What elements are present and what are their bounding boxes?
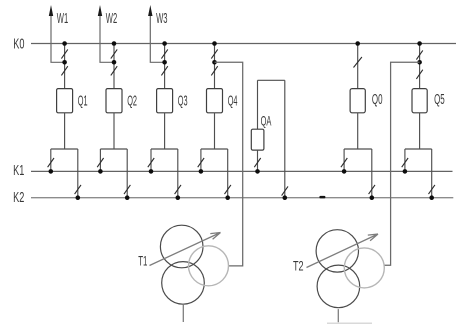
junction dot Q4 at K0 xyxy=(212,41,217,46)
junction dot Q3 tap xyxy=(162,60,167,65)
junction dot Q1 tap xyxy=(62,60,67,65)
disconnector slash Q0 xyxy=(354,57,362,68)
junction dot Q5 at K1 xyxy=(403,169,408,174)
junction dot Q3 at K0 xyxy=(162,41,167,46)
bus K0 xyxy=(31,43,456,45)
junction dot Q1 at K0 xyxy=(62,41,67,46)
transformer T1 primary winding xyxy=(160,225,203,268)
circuit breaker Q3 xyxy=(157,89,173,113)
arrowhead W3 xyxy=(148,5,152,16)
svg-text:Q1: Q1 xyxy=(78,92,88,109)
disconnector slash Q3 K2 leg xyxy=(175,185,181,194)
split bar Q5 xyxy=(405,148,432,150)
junction dot Q2 at K1 xyxy=(98,169,103,174)
wire Q0 right leg to K2 xyxy=(371,149,373,198)
disconnector slash Q3 upper xyxy=(161,49,167,58)
junction dot Q5 at K0 xyxy=(417,41,422,46)
wire Q0 bus drop xyxy=(357,44,359,89)
junction dot Q5 tap xyxy=(417,60,422,65)
disconnector slash Q2 upper xyxy=(111,49,117,58)
junction dot Q0 at K0 xyxy=(355,41,360,46)
wire Q1 bus drop xyxy=(64,44,66,89)
wire Q4 bus drop xyxy=(214,44,216,89)
transformer T1 tertiary winding xyxy=(189,246,229,286)
junction dot Q3 at K1 xyxy=(149,169,154,174)
circuit breaker Q2 xyxy=(106,89,122,113)
junction dot QA at K2 xyxy=(283,195,288,200)
wire Q4 left leg to K1 xyxy=(200,149,202,171)
wire Q3 bus drop xyxy=(164,44,166,89)
disconnector slash Q2 lower xyxy=(111,66,117,75)
junction tick on K2 xyxy=(319,196,325,199)
svg-text:K0: K0 xyxy=(13,35,24,52)
wire Q2 bus drop xyxy=(113,44,115,89)
transformer T1 secondary winding xyxy=(162,262,205,305)
split bar Q2 xyxy=(100,148,127,150)
junction dot Q2 at K2 xyxy=(125,195,130,200)
wire Q4 tap to transformer T1 tertiary xyxy=(215,62,243,266)
junction dot Q4 tap xyxy=(212,60,217,65)
bus K1 xyxy=(31,170,453,172)
junction dot Q0 at K2 xyxy=(370,195,375,200)
T2 neutral stub xyxy=(337,309,339,322)
split bar Q3 xyxy=(151,148,178,150)
split bar Q4 xyxy=(201,148,228,150)
wire QA left leg upper xyxy=(257,80,259,129)
disconnector slash Q5 K2 leg xyxy=(429,185,435,194)
wire Q1 right leg to K2 xyxy=(77,149,79,198)
disconnector slash Q5 K1 leg xyxy=(402,158,408,167)
circuit breaker Q4 xyxy=(207,89,223,113)
wire Q4 box to split bar xyxy=(214,113,216,149)
disconnector slash Q1 K1 leg xyxy=(48,158,54,167)
T2 tap-changer arrow xyxy=(307,234,379,268)
transformer T2 tertiary winding xyxy=(344,248,384,288)
svg-text:Q4: Q4 xyxy=(228,92,238,109)
split bar Q1 xyxy=(51,148,78,150)
arrowhead W2 xyxy=(98,5,102,16)
svg-text:Q5: Q5 xyxy=(434,91,445,108)
wire Q5 tap to transformer T2 tertiary xyxy=(384,62,419,265)
circuit breaker QA xyxy=(251,129,264,150)
wire QA left leg lower to K1 xyxy=(257,150,259,171)
transformer T2 secondary winding xyxy=(317,265,360,308)
disconnector slash Q2 K2 leg xyxy=(124,185,130,194)
junction dot Q4 at K1 xyxy=(199,169,204,174)
disconnector slash Q2 K1 leg xyxy=(97,158,103,167)
junction dot Q5 at K2 xyxy=(429,195,434,200)
svg-text:W3: W3 xyxy=(156,10,167,27)
wire Q4 right leg to K2 xyxy=(227,149,229,198)
wire Q0 left leg to K1 xyxy=(343,149,345,171)
junction dot QA at K1 xyxy=(255,169,260,174)
junction dot Q4 at K2 xyxy=(225,195,230,200)
circuit breaker Q1 xyxy=(57,89,73,113)
svg-text:W1: W1 xyxy=(57,10,68,27)
wire Q2 left leg to K1 xyxy=(99,149,101,171)
disconnector slash Q0 K2 leg xyxy=(369,185,375,194)
wire Q1 box to split bar xyxy=(64,113,66,149)
junction dot Q0 at K1 xyxy=(342,169,347,174)
junction dot Q2 tap xyxy=(112,60,117,65)
svg-text:Q0: Q0 xyxy=(372,91,383,108)
disconnector slash Q3 K1 leg xyxy=(148,158,154,167)
junction dot Q2 at K0 xyxy=(112,41,117,46)
circuit breaker Q5 xyxy=(412,89,427,113)
wire Q2 box to split bar xyxy=(113,113,115,149)
disconnector slash Q5 lower xyxy=(416,70,422,79)
disconnector slash Q4 lower xyxy=(211,66,217,75)
disconnector slash Q3 lower xyxy=(161,66,167,75)
disconnector slash QA K2 leg xyxy=(282,186,288,195)
svg-text:QA: QA xyxy=(261,112,272,128)
svg-text:K1: K1 xyxy=(13,162,24,179)
svg-text:W2: W2 xyxy=(106,10,117,27)
wire Q5 box to split bar xyxy=(419,113,421,149)
feeder arrow W1 xyxy=(51,14,65,62)
svg-text:K2: K2 xyxy=(13,189,24,206)
wire Q3 right leg to K2 xyxy=(177,149,179,198)
feeder arrow W3 xyxy=(150,14,164,62)
junction dot Q1 at K1 xyxy=(49,169,54,174)
wire Q5 right leg to K2 xyxy=(431,149,433,198)
disconnector slash Q0 K1 leg xyxy=(341,158,347,167)
svg-text:Q3: Q3 xyxy=(178,92,188,109)
disconnector slash Q1 K2 leg xyxy=(75,185,81,194)
disconnector slash Q4 K1 leg xyxy=(198,158,204,167)
wire Q5 bus drop xyxy=(419,44,421,89)
svg-text:Q2: Q2 xyxy=(127,92,137,109)
disconnector slash Q4 K2 leg xyxy=(225,185,231,194)
circuit breaker Q0 xyxy=(350,89,365,113)
wire Q3 left leg to K1 xyxy=(150,149,152,171)
svg-text:T1: T1 xyxy=(138,253,147,269)
bus-tie QA top bar xyxy=(258,79,285,81)
wire Q5 left leg to K1 xyxy=(404,149,406,171)
disconnector slash Q4 upper xyxy=(211,49,217,58)
disconnector slash Q1 lower xyxy=(61,66,67,75)
wire Q2 right leg to K2 xyxy=(126,149,128,198)
junction dot Q3 at K2 xyxy=(176,195,181,200)
arrowhead W1 xyxy=(49,5,53,16)
wire Q3 box to split bar xyxy=(164,113,166,149)
wire Q1 left leg to K1 xyxy=(50,149,52,171)
disconnector slash Q5 upper xyxy=(416,50,422,59)
T1 tap-changer arrow xyxy=(150,233,221,266)
junction dot Q1 at K2 xyxy=(76,195,81,200)
T1 neutral stub xyxy=(182,304,184,322)
svg-text:T2: T2 xyxy=(293,258,304,274)
feeder arrow W2 xyxy=(100,14,114,62)
transformer T2 primary winding xyxy=(316,230,358,272)
disconnector slash Q1 upper xyxy=(61,49,67,58)
disconnector slash QA K1 leg xyxy=(254,158,260,167)
split bar Q0 xyxy=(344,148,372,150)
wire Q0 box to split bar xyxy=(357,113,359,149)
T2 bottom edge faint mark xyxy=(327,323,372,324)
wire QA right leg to K2 xyxy=(284,80,286,197)
bus K2 xyxy=(31,197,453,199)
